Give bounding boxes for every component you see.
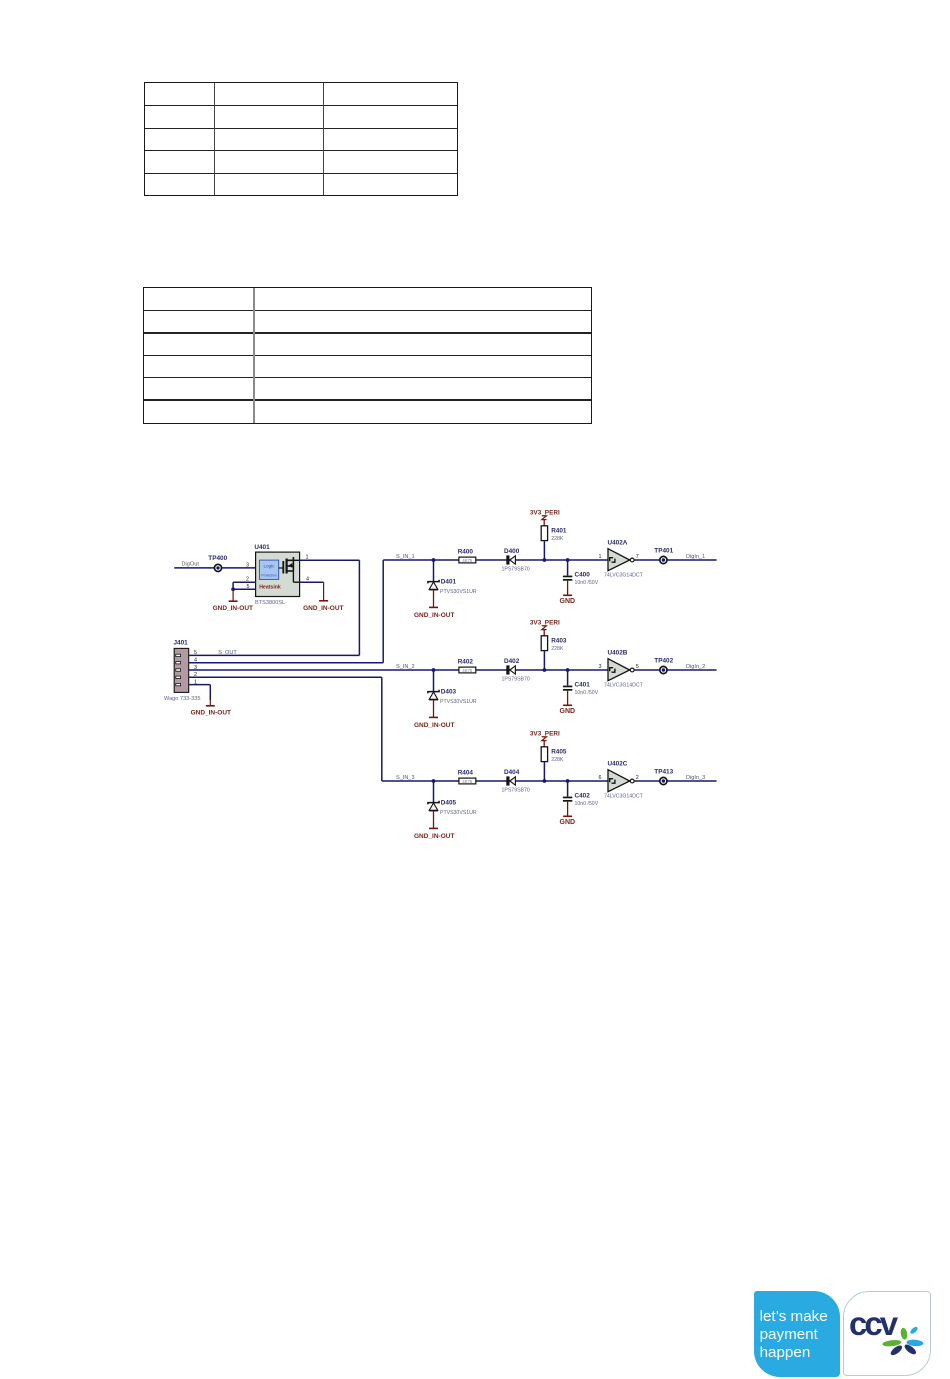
ground GND_IN-OUT under J401 (191, 700, 231, 717)
wire R401 to net (543, 541, 545, 560)
label Wago 733-335 (164, 696, 201, 702)
svg-text:U402C: U402C (608, 760, 628, 767)
svg-text:GND_IN-OUT: GND_IN-OUT (191, 710, 231, 717)
svg-text:228K: 228K (551, 536, 564, 542)
junction pull-up R405 (543, 779, 547, 783)
pin 3 number (246, 563, 249, 569)
J401 pin number 2 (194, 672, 197, 678)
test point TP402 (660, 666, 667, 673)
ground GND_IN-OUT under D403 (414, 700, 454, 729)
svg-text:1PS79SB70: 1PS79SB70 (502, 788, 530, 794)
wire S_IN_2 main (189, 669, 717, 671)
svg-text:Heatsink: Heatsink (259, 584, 281, 590)
label TP400 (208, 555, 227, 562)
svg-text:U402B: U402B (608, 649, 628, 656)
junction C402 tap (566, 779, 570, 783)
pin 5 number (U402B out) (636, 664, 639, 670)
junction C400 tap (566, 558, 570, 562)
svg-text:U402A: U402A (608, 539, 628, 546)
U401 logic/protection block (259, 560, 278, 579)
svg-text:GND_IN-OUT: GND_IN-OUT (414, 833, 454, 840)
svg-text:R400: R400 (458, 549, 474, 556)
wire S_IN_1 main (383, 559, 716, 561)
svg-text:C402: C402 (575, 792, 591, 799)
svg-text:3: 3 (246, 563, 249, 569)
inverter U402A 74LVC3G14DCT (604, 539, 644, 578)
svg-text:D401: D401 (441, 579, 457, 586)
flower petal bottom-left (navy) (889, 1344, 904, 1357)
node DigIn_1 net label (686, 554, 705, 560)
wire J401 pin 5 S_OUT (189, 654, 360, 656)
label U401 (254, 544, 270, 551)
svg-text:2: 2 (636, 775, 639, 781)
J401 pin slot 3 (176, 669, 181, 671)
svg-text:D404: D404 (504, 769, 520, 776)
ground GND_IN-OUT under U401 right (303, 582, 343, 612)
junction pull-up R403 (543, 668, 547, 672)
svg-text:74LVC3G14DCT: 74LVC3G14DCT (604, 794, 644, 800)
capacitor C400 10n0 /50V (563, 560, 599, 586)
svg-text:Logic: Logic (264, 563, 276, 568)
svg-text:D402: D402 (504, 658, 520, 665)
ground GND_IN-OUT under U401 left (213, 589, 253, 612)
logo: let's make payment happen (754, 1291, 840, 1377)
svg-text:DigIn_3: DigIn_3 (686, 775, 705, 781)
pin 6 number (U402C in) (599, 775, 602, 781)
svg-text:TP402: TP402 (654, 657, 673, 664)
test point TP400 (214, 564, 221, 571)
pin 3 number (U402B in) (599, 664, 602, 670)
node S_IN_1 net label (396, 554, 415, 560)
table 1 (empty 5x3) (144, 82, 458, 196)
resistor R404 4K75 (458, 770, 476, 784)
J401 pin number 1 (194, 679, 197, 685)
svg-text:PTVS30VS1UR: PTVS30VS1UR (440, 810, 477, 816)
wire U401 pin 2 (233, 581, 256, 583)
pin 5 number (247, 584, 250, 590)
power 3V3_PERI above R405 (530, 731, 560, 747)
J401 pin slot 1 (176, 683, 181, 685)
flower petal up (green) (900, 1327, 908, 1340)
wire R403 to net (543, 651, 545, 670)
ground GND_IN-OUT under D401 (414, 590, 454, 619)
test point TP401 (660, 556, 667, 563)
logo: CCV box (843, 1291, 931, 1376)
J401 pin slot 5 (176, 654, 181, 656)
node DigOut net label (182, 562, 200, 568)
svg-text:228K: 228K (551, 757, 564, 763)
svg-text:S_IN_2: S_IN_2 (396, 664, 415, 670)
svg-text:GND: GND (560, 708, 576, 715)
svg-text:D403: D403 (441, 689, 457, 696)
svg-text:DigOut: DigOut (182, 562, 200, 568)
svg-text:10n0 /50V: 10n0 /50V (575, 690, 599, 696)
svg-text:GND_IN-OUT: GND_IN-OUT (414, 612, 454, 619)
node S_IN_3 net label (396, 775, 415, 781)
power 3V3_PERI above R401 (530, 510, 560, 526)
flower petal left (green) (882, 1339, 902, 1347)
svg-text:5: 5 (636, 664, 639, 670)
wire S_IN_3 main (382, 780, 717, 782)
wire J401 pin 1 (189, 685, 211, 700)
svg-text:S_OUT: S_OUT (218, 650, 237, 656)
svg-text:D405: D405 (441, 800, 457, 807)
svg-text:1PS79SB70: 1PS79SB70 (502, 677, 530, 683)
pin 7 number (U402A out) (636, 554, 639, 560)
svg-text:GND_IN-OUT: GND_IN-OUT (213, 605, 253, 612)
svg-text:TP401: TP401 (654, 547, 673, 554)
label TP402 (654, 657, 673, 664)
diode D402 1PS79SB70 (502, 658, 530, 683)
svg-text:PTVS30VS1UR: PTVS30VS1UR (440, 699, 477, 705)
svg-text:DigIn_2: DigIn_2 (686, 664, 705, 670)
label TP401 (654, 547, 673, 554)
table 2 (empty 6x2) (143, 287, 592, 424)
svg-text:7: 7 (636, 554, 639, 560)
J401 pin number 3 (194, 665, 197, 671)
label TP413 (654, 768, 673, 775)
resistor R401 228K (541, 526, 567, 542)
pin 2 number (246, 577, 249, 583)
node S_IN_2 net label (396, 664, 415, 670)
svg-text:ccv: ccv (849, 1305, 899, 1342)
J401 pin number 5 (194, 650, 197, 656)
resistor R402 4K75 (458, 659, 476, 673)
svg-text:R402: R402 (458, 659, 474, 666)
wire U401 pin 5 (233, 588, 256, 590)
logo: ccv wordmark + flower (843, 1291, 931, 1376)
svg-text:GND_IN-OUT: GND_IN-OUT (303, 605, 343, 612)
svg-text:R405: R405 (551, 748, 567, 755)
junction pull-up R401 (543, 558, 547, 562)
svg-text:U401: U401 (254, 544, 270, 551)
wire R405 to net (543, 762, 545, 781)
diode D401 PTVS30VS1UR (TVS) (428, 560, 477, 595)
svg-text:C400: C400 (575, 571, 591, 578)
wire J401 pin 2 to S_IN_3 bus (189, 677, 382, 781)
svg-text:PTVS30VS1UR: PTVS30VS1UR (440, 589, 477, 595)
svg-text:D400: D400 (504, 548, 520, 555)
pin 4 number (306, 577, 309, 583)
connector J401 body (174, 648, 189, 692)
resistor R405 228K (541, 747, 567, 763)
svg-text:1PS79SB70: 1PS79SB70 (502, 567, 530, 573)
svg-text:J401: J401 (174, 639, 189, 646)
junction at pin5 (231, 587, 235, 591)
wire DigOut to U401 pin 3 (174, 567, 255, 569)
junction C401 tap (566, 668, 570, 672)
node S_OUT net label (218, 650, 237, 656)
wire U401 pin 1 to S_OUT vertical (300, 560, 360, 655)
wire U401 pin 4 (300, 581, 324, 583)
ground GND under C402 (560, 802, 576, 827)
svg-text:Protection: Protection (261, 573, 276, 577)
svg-text:10n0 /50V: 10n0 /50V (575, 801, 599, 807)
svg-text:GND_IN-OUT: GND_IN-OUT (414, 722, 454, 729)
test point TP413 (660, 777, 667, 784)
svg-text:S_IN_3: S_IN_3 (396, 775, 415, 781)
svg-text:S_IN_1: S_IN_1 (396, 554, 415, 560)
pin 1 number (306, 555, 309, 561)
svg-text:4K75: 4K75 (462, 558, 472, 563)
U401 internal MOSFET (279, 557, 300, 582)
svg-text:GND: GND (560, 598, 576, 605)
junction S_IN_1/TVS (432, 558, 436, 562)
node DigIn_2 net label (686, 664, 705, 670)
svg-text:R404: R404 (458, 770, 474, 777)
J401 pin number 4 (194, 658, 197, 664)
svg-text:6: 6 (599, 775, 602, 781)
svg-text:4K75: 4K75 (462, 668, 472, 673)
svg-text:3: 3 (599, 664, 602, 670)
ground GND under C400 (560, 581, 576, 606)
flower petal top-right (light blue) (909, 1326, 919, 1335)
resistor R403 228K (541, 636, 567, 652)
svg-text:TP413: TP413 (654, 768, 673, 775)
diode D404 1PS79SB70 (502, 769, 530, 794)
flower petal bottom-right (navy) (903, 1343, 918, 1356)
junction S_IN_2/TVS (432, 668, 436, 672)
svg-text:228K: 228K (551, 646, 564, 652)
svg-text:4K75: 4K75 (462, 779, 472, 784)
diode D400 1PS79SB70 (502, 548, 530, 573)
transistor U401 body (256, 552, 300, 596)
svg-text:10n0 /50V: 10n0 /50V (575, 580, 599, 586)
svg-text:TP400: TP400 (208, 555, 227, 562)
J401 pin slot 2 (176, 676, 181, 678)
label BTS3800SL (255, 600, 285, 606)
J401 pin slot 4 (176, 662, 181, 664)
svg-text:BTS3800SL: BTS3800SL (255, 600, 285, 606)
ground GND under C401 (560, 691, 576, 716)
node DigIn_3 net label (686, 775, 705, 781)
capacitor C402 10n0 /50V (563, 781, 599, 807)
capacitor C401 10n0 /50V (563, 670, 599, 696)
svg-text:Wago 733-335: Wago 733-335 (164, 696, 201, 702)
ground GND_IN-OUT under D405 (414, 811, 454, 840)
wire pin2-pin5 vertical (232, 582, 234, 589)
resistor R400 4K75 (458, 549, 476, 563)
svg-text:GND: GND (560, 819, 576, 826)
label J401 (174, 639, 189, 646)
inverter U402C 74LVC3G14DCT (604, 760, 644, 799)
svg-text:1: 1 (599, 554, 602, 560)
flower petal right (light blue) (906, 1339, 923, 1347)
svg-text:74LVC3G14DCT: 74LVC3G14DCT (604, 683, 644, 689)
diode D403 PTVS30VS1UR (TVS) (428, 670, 477, 705)
pin 2 number (U402C out) (636, 775, 639, 781)
label Heatsink (259, 584, 281, 590)
power 3V3_PERI above R403 (530, 620, 560, 636)
svg-text:74LVC3G14DCT: 74LVC3G14DCT (604, 573, 644, 579)
svg-text:R401: R401 (551, 527, 567, 534)
svg-text:R403: R403 (551, 637, 567, 644)
svg-text:C401: C401 (575, 681, 591, 688)
svg-text:DigIn_1: DigIn_1 (686, 554, 705, 560)
wire J401 pin 4 to S_IN_1 bus (189, 560, 384, 663)
inverter U402B 74LVC3G14DCT (604, 649, 644, 688)
diode D405 PTVS30VS1UR (TVS) (428, 781, 477, 816)
junction S_IN_3/TVS (432, 779, 436, 783)
pin 1 number (U402A in) (599, 554, 602, 560)
